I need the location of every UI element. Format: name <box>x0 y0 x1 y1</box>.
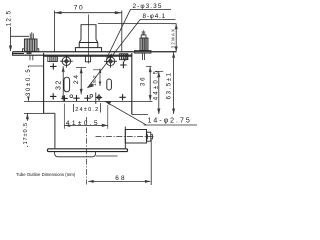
dim 70 line <box>55 12 122 14</box>
label 8-phi4.1 <box>143 13 167 20</box>
magnetron body right edge <box>131 53 133 115</box>
dim 24+-0.2 extension bar right <box>74 103 101 113</box>
leader from 8-phi4.1 to slot area <box>87 20 140 89</box>
label 8-phi4.1 underline <box>140 19 176 21</box>
antenna stub box (side view) <box>125 130 146 144</box>
terminal stud washer <box>135 51 152 54</box>
dim 24 top extension <box>76 66 86 68</box>
leader 14-phi2.75 diagonal <box>105 101 146 125</box>
antenna stub cap <box>146 132 150 141</box>
dim 70 left arrow <box>55 11 62 14</box>
svg-text:30±0.5: 30±0.5 <box>26 68 32 97</box>
dim 36 rotated text <box>140 75 148 86</box>
label 2-phi3.35 underline <box>130 8 171 10</box>
dim 12.5 top extension line to terminal top <box>11 35 30 37</box>
filament terminal body (left) <box>24 39 37 52</box>
dim 70 left extension line <box>54 11 56 53</box>
antenna cap mid section <box>79 43 98 48</box>
bottom cover edge <box>55 152 96 157</box>
dim 17+-0.5 line <box>26 113 28 147</box>
base tray band <box>47 149 127 152</box>
antenna height extension line (cap top to right) <box>98 23 176 25</box>
svg-text:32: 32 <box>55 79 62 90</box>
dim 44 top extension tick <box>156 70 164 72</box>
slot left (obround) <box>64 77 70 92</box>
label 2-phi3.35 <box>133 3 163 10</box>
terminal stud (right, on flange) pin top <box>142 30 145 35</box>
hole cross bottom row 3 <box>73 95 79 101</box>
flange left end thick mark <box>27 53 32 55</box>
label 14-phi2.75 text <box>148 117 192 124</box>
hole cross bottom row 2 <box>61 95 67 101</box>
magnetron body top edge <box>44 55 132 57</box>
label 14-phi2.75 top line <box>132 114 148 116</box>
stub horizontal axis (dash-dot) <box>96 135 156 137</box>
dim 36 line <box>149 67 151 101</box>
dim 32 line <box>62 66 64 101</box>
dim 15.2 rotated text <box>92 75 98 86</box>
filament terminal lower pin <box>30 55 33 60</box>
body bottom step left <box>44 112 55 114</box>
dim 12.5 line <box>10 27 12 51</box>
neck left vertical <box>54 113 56 148</box>
gasket box right (on body top) <box>120 54 128 60</box>
dim 44+-0.5 line <box>158 72 160 114</box>
svg-text:63.5±1: 63.5±1 <box>166 71 172 99</box>
dim 24+-0.2 text <box>75 107 99 113</box>
hole symbol U2 (circle-cross right) <box>106 57 115 66</box>
antenna cap taper <box>79 40 98 43</box>
dim 68 line <box>88 180 150 182</box>
dim 70 text <box>74 4 85 11</box>
svg-text:36: 36 <box>140 76 147 86</box>
caption Tube Outline Dimensions (mm) <box>16 172 76 177</box>
label 14-phi2.75 underline <box>144 124 198 126</box>
dim arrows landing on label line <box>157 109 160 115</box>
dim 32MAX top arrow <box>175 24 178 30</box>
filament terminal pin (left) <box>30 32 33 39</box>
antenna axis center line <box>87 15 89 64</box>
lower view vertical axis (dash-dot) <box>86 117 88 185</box>
terminal stud body <box>140 38 148 51</box>
dim 41 end ticks <box>64 104 108 129</box>
hole cross bottom row 5 <box>119 94 125 100</box>
slot right (obround) <box>107 79 112 90</box>
dim 41+-0.5 line <box>64 124 108 126</box>
dim 15.2 line <box>93 69 101 87</box>
svg-text:17±0.5: 17±0.5 <box>23 122 29 145</box>
small hole circle b <box>90 94 93 97</box>
dim 63.5+-1 rotated text <box>166 71 172 99</box>
dim 63.5+-1 line <box>173 52 175 114</box>
dim 32 rotated text <box>55 79 62 91</box>
dim 30 top extension <box>28 65 43 67</box>
leader from 2-phi3.35 to hole U2 <box>107 9 131 58</box>
gasket box left (on body top) <box>48 56 58 61</box>
svg-text:32MAX: 32MAX <box>171 28 176 49</box>
dim 32MAX rotated text <box>171 28 176 49</box>
svg-text:Tube Outline Dimensions (mm): Tube Outline Dimensions (mm) <box>16 172 76 177</box>
dim 32MAX line <box>175 24 177 52</box>
dim 24+-0.2 extension bar left <box>95 93 97 105</box>
mounting flange plate (edge view) <box>13 51 177 53</box>
stub left edge extended <box>124 127 126 149</box>
svg-text:12.5: 12.5 <box>6 10 13 26</box>
dim 70 right arrow <box>115 11 122 14</box>
svg-text:68: 68 <box>115 175 127 182</box>
dim 32MAX bottom arrow <box>175 47 178 53</box>
dim 30+-0.5 rotated text <box>26 67 33 96</box>
small hole circle <box>70 95 73 98</box>
svg-text:15.2: 15.2 <box>92 75 98 86</box>
svg-text:24±0.2: 24±0.2 <box>75 107 99 113</box>
filament terminal base skirt <box>23 49 39 52</box>
magnetron body left edge <box>43 53 45 113</box>
svg-text:2-φ3.35: 2-φ3.35 <box>133 3 163 10</box>
svg-text:8-φ4.1: 8-φ4.1 <box>143 13 167 20</box>
notch below antenna <box>85 56 90 62</box>
leader arrow to cross B <box>124 55 127 63</box>
terminal stud cap <box>141 35 146 38</box>
dim 17+-0.5 rotated text <box>23 121 31 146</box>
dim 70 right extension line <box>121 11 123 53</box>
dim 30+-0.5 line <box>27 66 29 101</box>
hole cross bottom row 1 <box>50 93 56 99</box>
svg-text:14-φ2.75: 14-φ2.75 <box>148 117 192 124</box>
hole cross top row A <box>50 63 56 69</box>
svg-text:70: 70 <box>74 4 85 11</box>
hole symbol U1 (circle-cross left) <box>62 57 71 66</box>
dim 68 right extension <box>150 140 152 186</box>
hole cross bottom row 3b <box>84 95 90 101</box>
hole cross bottom row 4 with circle <box>97 96 100 99</box>
antenna cap top section <box>81 25 96 40</box>
dim 12.5 bottom arrow <box>9 46 12 52</box>
hole cross top row B <box>120 62 126 68</box>
dim 17 top extension <box>24 112 44 114</box>
svg-text:44±0.5: 44±0.5 <box>153 69 159 101</box>
antenna stub pin <box>151 135 153 139</box>
svg-text:24: 24 <box>73 74 80 85</box>
antenna cap base <box>75 48 101 52</box>
svg-text:41±0.5: 41±0.5 <box>66 120 100 127</box>
terminal stud lower pin <box>143 53 145 60</box>
dim 41+-0.5 text <box>66 119 101 127</box>
dim 68 text <box>115 175 127 182</box>
dim 24 line <box>80 68 82 95</box>
dim 44+-0.5 rotated text <box>153 69 159 101</box>
dim 12.5 rotated text <box>6 10 13 26</box>
dim 36 top extension tick <box>146 65 152 67</box>
dim 24 rotated text <box>73 74 80 85</box>
extension line y101.5 right section <box>24 100 153 102</box>
